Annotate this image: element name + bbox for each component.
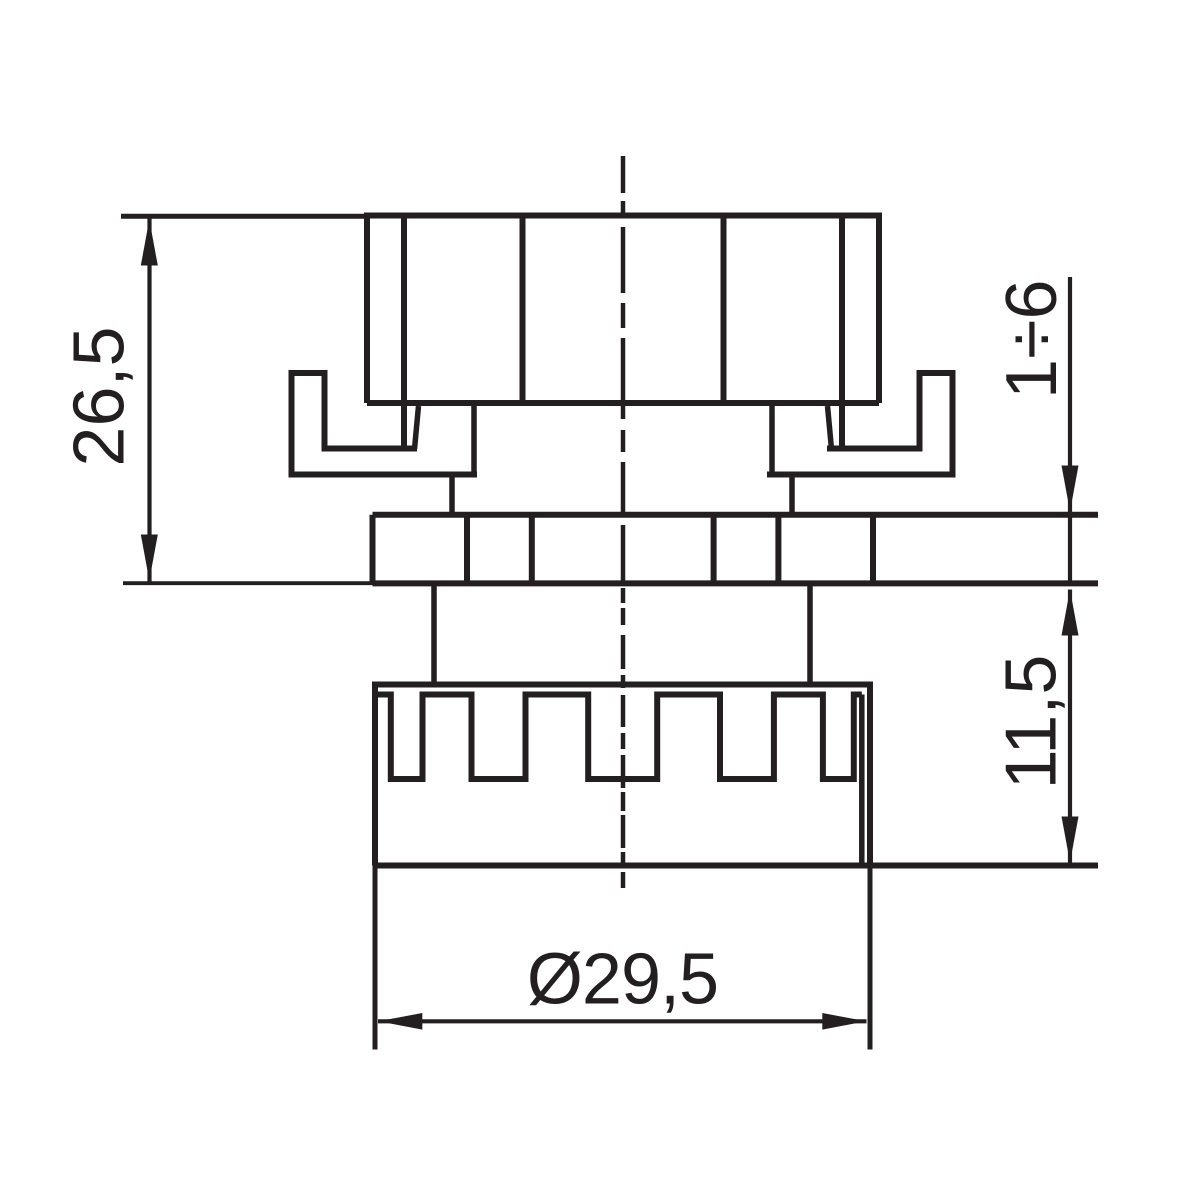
svg-text:1÷6: 1÷6 bbox=[992, 279, 1072, 399]
svg-text:26,5: 26,5 bbox=[60, 326, 140, 466]
svg-text:11,5: 11,5 bbox=[992, 655, 1072, 790]
svg-text:Ø29,5: Ø29,5 bbox=[527, 940, 718, 1020]
